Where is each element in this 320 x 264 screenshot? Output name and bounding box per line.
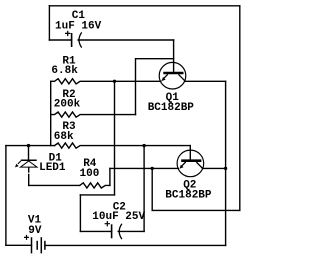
- wire C2 left: [80, 230, 111, 232]
- battery V1: [24, 235, 45, 254]
- svg-text:LED1: LED1: [39, 162, 66, 174]
- wire x80 vertical: [79, 195, 81, 232]
- wire left rail: [5, 146, 7, 246]
- wire center vertical from R1 junction: [114, 81, 116, 195]
- wire right mid vertical: [225, 81, 227, 245]
- wire mid row: [6, 145, 55, 147]
- wire R4 riser: [109, 168, 111, 185]
- svg-text:BC182BP: BC182BP: [148, 102, 195, 114]
- LED D1: [18, 160, 37, 167]
- wire y195: [80, 194, 114, 196]
- wire C1 left: [49, 39, 71, 41]
- svg-text:1uF 16V: 1uF 16V: [55, 21, 102, 33]
- transistor Q2: [177, 150, 204, 177]
- svg-text:BC182BP: BC182BP: [165, 189, 212, 201]
- junction dot Q2 emitter: [151, 167, 154, 170]
- wire C1 right to Q1 base: [78, 39, 174, 41]
- wire rail R1-R2-R3 left: [50, 81, 52, 145]
- transistor Q1: [159, 62, 186, 89]
- wire left top segment: [48, 6, 50, 40]
- wire battery left: [6, 244, 32, 246]
- wire right rail: [239, 6, 241, 211]
- svg-text:68k: 68k: [54, 131, 74, 143]
- svg-text:100: 100: [80, 168, 100, 180]
- wire Q1 base vertical: [173, 40, 175, 72]
- wire C2 right: [118, 230, 144, 232]
- capacitor C1: [65, 31, 82, 48]
- wire y210 to right rail: [152, 209, 240, 211]
- resistor R2: [51, 112, 136, 117]
- wire Q2 emitter drop: [151, 168, 153, 210]
- junction dot R3/C2: [142, 144, 145, 147]
- capacitor C2: [105, 221, 122, 239]
- junction dot LED top: [27, 144, 30, 147]
- junction dot Q2 collector: [224, 167, 227, 170]
- svg-text:10uF 25V: 10uF 25V: [92, 211, 145, 223]
- resistor R1: [51, 79, 161, 84]
- resistor R3: [55, 143, 191, 148]
- wire R2 to Q1 base link: [136, 59, 174, 115]
- svg-text:200k: 200k: [54, 99, 81, 111]
- wire top rail: [49, 5, 239, 7]
- wire Q1 collector: [185, 80, 226, 82]
- junction dot R1/center: [113, 80, 116, 83]
- wire Q2 collector: [203, 167, 226, 169]
- wire bottom: [45, 244, 226, 246]
- wire R3 junction to C2 vertical: [143, 146, 145, 232]
- svg-text:9V: 9V: [28, 225, 42, 237]
- wire Q2 emitter row: [110, 167, 178, 169]
- wire LED bottom lead: [28, 167, 30, 185]
- wire LED top lead: [28, 146, 30, 160]
- wire Q2 base vertical: [189, 146, 191, 160]
- svg-text:6.8k: 6.8k: [51, 65, 78, 77]
- resistor R4: [80, 183, 110, 188]
- wire LED to R4: [29, 184, 80, 186]
